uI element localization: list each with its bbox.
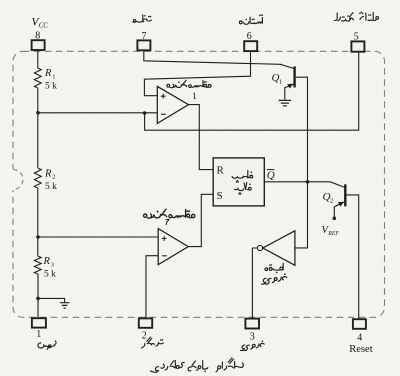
svg-text:1: 1 — [192, 91, 197, 101]
svg-text:Reset: Reset — [349, 344, 372, 355]
svg-text:5: 5 — [354, 31, 359, 42]
svg-text:3: 3 — [51, 261, 54, 268]
svg-text:R: R — [43, 256, 51, 267]
svg-text:R: R — [44, 168, 52, 179]
svg-text:7: 7 — [142, 31, 147, 42]
svg-text:1: 1 — [279, 78, 282, 85]
svg-text:3: 3 — [250, 331, 255, 342]
svg-text:CC: CC — [39, 22, 49, 30]
svg-text:S: S — [217, 190, 223, 202]
svg-text:5 k: 5 k — [45, 81, 57, 91]
svg-text:R: R — [44, 68, 52, 79]
svg-text:2: 2 — [330, 197, 333, 204]
svg-text:R: R — [217, 165, 225, 177]
svg-text:1: 1 — [52, 73, 55, 80]
svg-text:2: 2 — [52, 174, 55, 181]
svg-text:5 k: 5 k — [44, 269, 56, 279]
svg-text:4: 4 — [357, 332, 362, 343]
svg-text:5 k: 5 k — [45, 182, 57, 192]
svg-text:1: 1 — [36, 329, 41, 340]
svg-text:8: 8 — [35, 31, 40, 42]
svg-text:2: 2 — [142, 330, 147, 341]
svg-text:REF: REF — [327, 231, 339, 237]
svg-text:6: 6 — [247, 31, 252, 42]
svg-text:Q: Q — [267, 170, 275, 182]
